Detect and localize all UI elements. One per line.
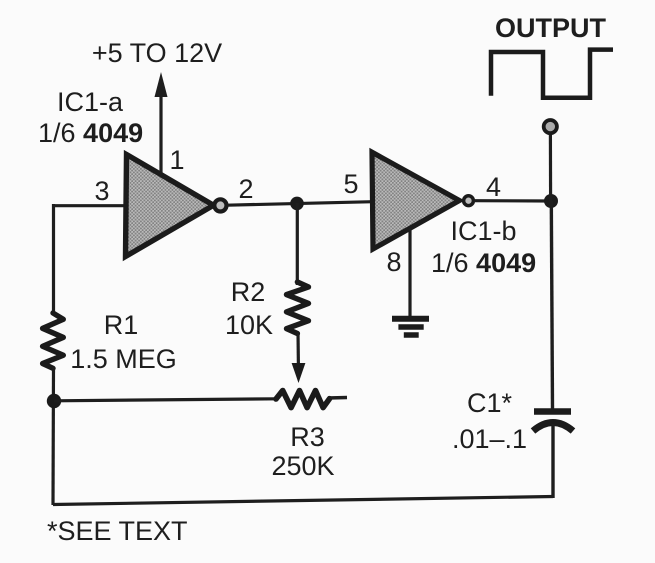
op-amp IC1-b inverter triangle <box>372 152 459 249</box>
node: output junction <box>544 194 558 208</box>
svg-text:10K: 10K <box>225 310 273 340</box>
resistor R2 zigzag <box>287 282 309 334</box>
wire: IC1-b output to output node <box>474 199 552 203</box>
svg-text:4: 4 <box>486 172 501 202</box>
wire: R2 to wiper arrow on R3 <box>292 332 306 383</box>
capacitor C1 <box>533 412 573 432</box>
svg-text:250K: 250K <box>271 451 334 481</box>
wire: pin 8 to ground <box>408 228 411 317</box>
svg-text:1/6 4049: 1/6 4049 <box>431 248 536 278</box>
wire: junction up to output terminal <box>549 134 552 201</box>
svg-text:OUTPUT: OUTPUT <box>495 13 607 43</box>
wire: C1 down to bottom rail <box>551 424 554 498</box>
svg-text:R2: R2 <box>231 277 266 307</box>
svg-text:1/6 4049: 1/6 4049 <box>38 118 143 148</box>
wire: left rail vertical lower (R1 to bottom rail) <box>51 367 55 505</box>
resistor R1 zigzag <box>43 313 64 368</box>
svg-text:C1*: C1* <box>467 388 513 418</box>
svg-text:5: 5 <box>343 169 358 199</box>
op-amp IC1-a inverter triangle <box>126 155 214 257</box>
svg-text:1: 1 <box>169 145 184 175</box>
svg-text:IC1-b: IC1-b <box>450 216 516 246</box>
node: junction of output, R2 <box>290 197 304 211</box>
svg-text:8: 8 <box>386 247 401 277</box>
svg-text:+5 TO 12V: +5 TO 12V <box>92 38 222 68</box>
svg-text:R3: R3 <box>290 422 325 452</box>
svg-text:3: 3 <box>94 176 109 206</box>
wire: pin 3 input from left rail <box>52 204 128 207</box>
resistor R3 zigzag (potentiometer) <box>276 391 330 408</box>
wire: bottom rail <box>53 497 553 505</box>
wire: IC1-a output to IC1-b input <box>227 202 373 206</box>
output terminal dot <box>544 120 557 133</box>
wire: R3 right stub <box>328 396 347 400</box>
inverter bubble IC1-b output <box>464 196 474 206</box>
wire: junction to R3 <box>54 399 277 401</box>
wire: output node down to C1 <box>551 201 552 409</box>
wire: left rail vertical upper (pin3 to R1) <box>52 204 55 314</box>
svg-text:2: 2 <box>238 174 253 204</box>
svg-text:IC1-a: IC1-a <box>57 87 124 117</box>
ground symbol <box>392 319 429 335</box>
inverter bubble IC1-a output <box>214 199 226 211</box>
wire: junction down to R2 <box>296 203 299 285</box>
svg-text:*SEE TEXT: *SEE TEXT <box>47 516 188 546</box>
svg-text:.01–.1: .01–.1 <box>452 424 527 454</box>
square wave symbol <box>491 50 613 98</box>
node: junction left rail / R3 <box>47 394 61 408</box>
svg-text:1.5 MEG: 1.5 MEG <box>70 344 177 374</box>
svg-text:R1: R1 <box>104 310 139 340</box>
power supply arrow to pin 1 <box>155 72 168 176</box>
